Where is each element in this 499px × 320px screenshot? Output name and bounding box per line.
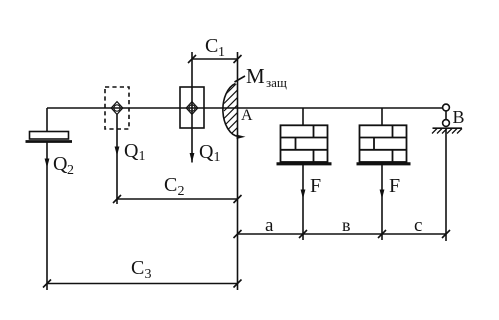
wire: Q2 line down to C3 dimension [46, 142, 48, 291]
svg-text:А: А [241, 107, 253, 124]
svg-text:Q: Q [53, 153, 68, 175]
trolley box 2 (solid) [180, 87, 204, 128]
dashed trolley box (phantom position) [105, 87, 129, 129]
dimension C1 tick left [188, 55, 196, 63]
dimension C1 tick right [234, 55, 242, 63]
beam (main horizontal bar) [47, 107, 442, 109]
force arrow Q2 [45, 159, 50, 169]
svg-text:защ: защ [266, 75, 287, 90]
support B lower pin circle [443, 120, 450, 127]
hanger wire 1 [302, 108, 304, 125]
wire: Q1 line from trolley 1 down to C2 [116, 114, 118, 204]
svg-text:В: В [453, 107, 465, 127]
brick block 2 joint row2 [373, 138, 375, 150]
trolley wheel symbol 2 (circle in diamond) [186, 102, 198, 115]
svg-text:F: F [389, 175, 400, 197]
brick block 1 base plate [277, 162, 332, 165]
brick block 1 course lines [281, 137, 328, 139]
svg-text:1: 1 [139, 149, 146, 164]
svg-text:2: 2 [178, 184, 185, 199]
brick block 1 joint row3 [313, 150, 315, 162]
svg-text:3: 3 [145, 267, 152, 282]
support B link [445, 111, 447, 120]
tick at F2 [378, 230, 386, 238]
brick block 1 joint row2 [295, 138, 297, 150]
tick at B end [442, 230, 450, 238]
svg-text:с: с [414, 215, 422, 236]
svg-text:Q: Q [199, 141, 214, 163]
wire: vertical through trolley 2 from C1 extension to arrow [191, 52, 193, 163]
tick at F1 [299, 230, 307, 238]
dimension C3 line [47, 283, 238, 285]
svg-text:М: М [246, 64, 265, 88]
dimension C2 tick left [113, 195, 121, 203]
counterweight base line [26, 140, 73, 143]
svg-text:1: 1 [218, 45, 225, 60]
support B ground hatching [432, 129, 462, 134]
wire: F1 line down to dimension line [302, 164, 304, 240]
force arrow Q1 (left) [115, 147, 120, 157]
brick block 2 joint row1 [392, 125, 394, 137]
hanger wire 2 [381, 108, 383, 125]
brick block 1 outline [281, 125, 328, 162]
svg-text:Q: Q [124, 140, 139, 162]
wire: support B extension down to dimension line [445, 128, 447, 241]
counterweight plate (left support block) [30, 132, 69, 140]
trolley wheel symbol 1 (circle in diamond) [111, 102, 123, 115]
svg-text:а: а [265, 215, 274, 236]
support B ground line [433, 127, 463, 129]
dimension C3 tick left [43, 280, 51, 288]
leader line to moment label [235, 76, 246, 82]
force arrow Q1 (right) [190, 153, 195, 163]
dimension C3 tick right [234, 280, 242, 288]
svg-text:С: С [131, 257, 144, 279]
wire: left drop from beam to counterweight plate [46, 108, 48, 132]
brick block 1 joint row1 [313, 125, 315, 137]
support B upper pin circle [443, 104, 450, 111]
moment hatching between arc and line [224, 82, 238, 149]
force arrow F2 [380, 190, 385, 200]
dimension C2 line [117, 198, 238, 200]
svg-text:в: в [342, 215, 351, 235]
svg-text:С: С [205, 35, 218, 57]
wire: F2 line down to dimension line [381, 164, 383, 240]
dimension a-v-c line [238, 233, 447, 235]
brick block 2 outline [360, 125, 407, 162]
svg-text:С: С [164, 174, 177, 196]
svg-text:2: 2 [67, 163, 74, 178]
force arrow F1 [301, 190, 306, 200]
dimension C2 tick right [234, 195, 242, 203]
moment arrow head (points right) [237, 135, 246, 139]
wire: moment wall vertical line at node A [237, 52, 239, 290]
svg-text:F: F [310, 175, 321, 197]
brick block 2 course lines [360, 137, 407, 139]
moment arc M (half ellipse bulging left) [223, 84, 239, 137]
tick at A end [234, 230, 242, 238]
brick block 2 joint row3 [392, 150, 394, 162]
dimension C1 line [192, 58, 238, 60]
brick block 2 base plate [357, 162, 411, 165]
svg-text:1: 1 [214, 150, 221, 165]
